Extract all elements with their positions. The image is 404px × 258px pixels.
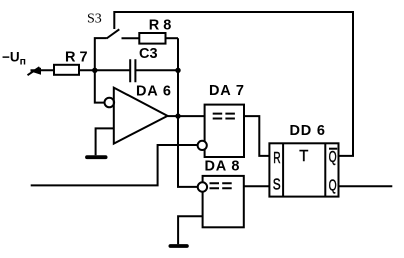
wire non-inverting input to ground [96,128,114,155]
wire C3 right plate to output vertical [136,69,178,71]
wire R7 to input node [79,69,130,71]
node junction dot C3 right [175,68,180,73]
svg-text:T: T [299,148,309,165]
svg-text:R 7: R 7 [65,49,88,65]
node junction dot input node [92,68,97,73]
svg-text:DA 6: DA 6 [136,84,172,100]
wire input node down to inverting input [95,70,105,102]
wire DA8 second input to ground [178,216,203,244]
flip-flop DD6 [269,143,338,196]
DD6 left divider [282,143,284,196]
svg-text:Q: Q [329,177,337,194]
wire DA8 output to S input [244,185,270,187]
DA7 inverting input circle [198,141,207,150]
capacitor C3 [130,59,135,82]
svg-text:DA 7: DA 7 [209,83,245,99]
Q-bar overbar [329,148,337,150]
wire Q output [339,185,393,187]
wire output vertical line [178,38,198,187]
switch S3 blade [107,29,120,38]
arrow -Up [28,67,42,75]
DA8 equality symbol [210,183,232,188]
wire DA7 output to R input [244,116,269,156]
wire output to DA7 input 1 [178,115,205,117]
svg-text:S: S [273,177,281,194]
wire top feedback rail from Q-bar to switch S3 [114,12,353,156]
DA8 inverting input circle [198,182,207,191]
op-amp DA6 triangle [114,88,168,144]
ground (DA8) [170,244,187,248]
wire -Up arrow to R7 [31,69,55,71]
node junction dot op-amp output [175,113,180,118]
svg-text:Q: Q [329,149,337,166]
wire op-amp output [168,115,179,117]
resistor R8 [139,33,165,44]
comparator DA7 [205,105,244,157]
wire left input rail to DA7 inverting input [31,145,198,185]
svg-text:DD 6: DD 6 [290,123,326,139]
DA7 equality symbol [213,114,235,119]
wire switch right contact to R8 [122,37,140,39]
resistor R7 [54,65,79,75]
switch S3 left contact wire [95,38,107,70]
svg-text:R 8: R 8 [149,17,172,33]
svg-text:C3: C3 [139,46,158,62]
wire R8 to output vertical [166,37,179,39]
comparator DA8 [203,176,244,227]
svg-text:DA 8: DA 8 [205,159,241,175]
DD6 right divider [324,143,326,196]
op-amp DA6 inverting input circle [105,98,115,108]
svg-text:S3: S3 [87,11,102,26]
ground (op-amp) [87,155,106,159]
svg-text:R: R [273,150,280,167]
